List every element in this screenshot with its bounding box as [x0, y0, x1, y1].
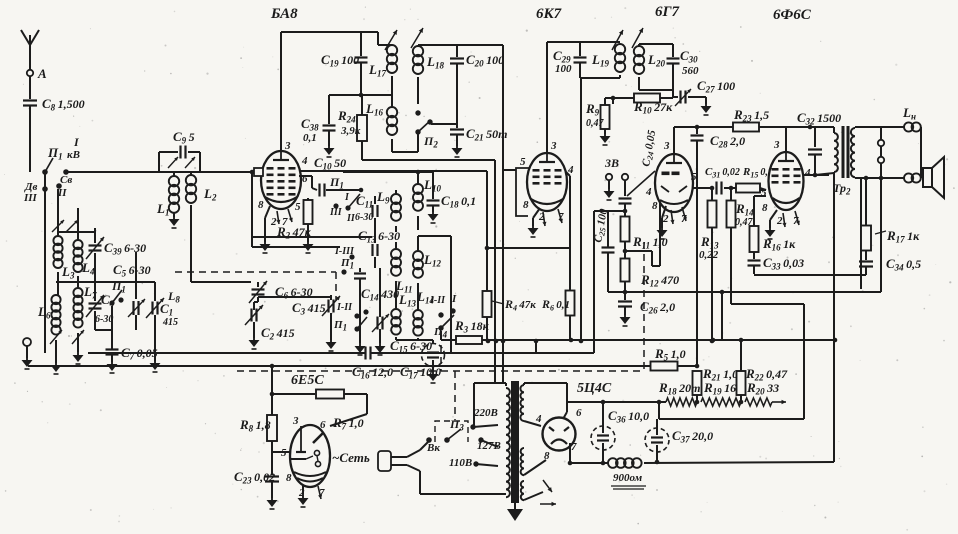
svg-text:Св: Св — [60, 174, 72, 186]
svg-text:С37 20,0: С37 20,0 — [672, 428, 713, 445]
switch P4 — [429, 293, 457, 340]
svg-text:3: 3 — [292, 415, 299, 427]
svg-text:С28 2,0: С28 2,0 — [710, 133, 745, 150]
switch P1 section — [109, 279, 125, 306]
svg-text:2: 2 — [270, 216, 277, 228]
coil L12 — [413, 236, 451, 353]
svg-text:С39 6-30: С39 6-30 — [104, 240, 146, 257]
capacitor C23 0,02 — [234, 469, 279, 509]
capacitor C28 2,0 — [691, 127, 746, 366]
coil L18 — [413, 45, 445, 104]
label tube type 6A8 — [270, 6, 298, 22]
label tube type 6F6S — [773, 7, 812, 23]
svg-text:3: 3 — [284, 140, 291, 152]
trimmer capacitor C13 6-30 — [358, 226, 400, 268]
svg-text:R5 1,0: R5 1,0 — [654, 346, 686, 363]
variable capacitor C2 415 — [245, 302, 295, 349]
tube V2 6K7 — [520, 140, 574, 223]
resistor R19 zigzag — [695, 395, 741, 406]
coil L3 — [53, 189, 75, 281]
svg-text:БА8: БА8 — [270, 6, 298, 22]
wire bus — [252, 172, 372, 247]
svg-text:8: 8 — [258, 199, 264, 211]
svg-text:3,9к: 3,9к — [340, 125, 361, 137]
filter choke 900 ohm — [608, 458, 834, 489]
ground — [73, 350, 84, 364]
svg-text:R12 470: R12 470 — [640, 272, 679, 289]
wire cathode stubs — [260, 206, 293, 253]
coil L17 — [368, 45, 397, 107]
capacitor C25 100 — [592, 207, 614, 292]
svg-text:3В: 3В — [604, 156, 619, 170]
capacitor C33 0,03 — [748, 252, 805, 274]
label tube type 6K7 — [536, 6, 562, 22]
svg-text:R7 1,0: R7 1,0 — [332, 415, 364, 432]
tube V1 6A8 — [258, 140, 308, 228]
wire — [611, 96, 616, 104]
svg-text:R23 1,5: R23 1,5 — [733, 107, 769, 124]
tuning arrow — [612, 28, 643, 50]
mains plug — [332, 450, 407, 471]
wire — [396, 339, 433, 341]
resistor R17 1k — [861, 226, 920, 251]
switch P1 osc section low — [333, 302, 369, 333]
wire B+ bus — [567, 401, 658, 403]
wire bus — [0, 0, 1, 1]
capacitor C10 50 — [299, 155, 363, 197]
tube V5 6E5S — [281, 415, 330, 499]
wire bus — [754, 274, 866, 276]
svg-text:8: 8 — [286, 472, 292, 484]
wire osc anode — [300, 170, 487, 172]
wire cathode 6G7 — [657, 206, 687, 239]
electrolytic C37 20,0 — [645, 419, 713, 464]
svg-text:~Сеть: ~Сеть — [332, 450, 370, 465]
wire bus avc — [28, 365, 651, 367]
switch P3 dashed box — [435, 421, 468, 442]
wire — [343, 170, 433, 175]
svg-text:R18 20т: R18 20т — [658, 380, 700, 397]
wire — [594, 211, 625, 353]
svg-text:0,22: 0,22 — [699, 249, 719, 261]
wire — [658, 401, 666, 403]
coil L9 — [376, 189, 401, 232]
capacitor C30 560 — [667, 44, 700, 90]
switch P1 osc section top — [329, 175, 360, 224]
svg-text:8: 8 — [523, 199, 529, 211]
coil Ln speaker field — [881, 105, 921, 183]
wire — [546, 42, 548, 153]
svg-text:R4 47к: R4 47к — [504, 297, 536, 313]
resistor R13 0,22 — [699, 186, 719, 344]
svg-text:8: 8 — [544, 450, 550, 462]
capacitor C32 1500 — [797, 110, 841, 177]
svg-text:С3 415: С3 415 — [292, 300, 326, 317]
wire plate to top — [280, 32, 282, 151]
wire B+ filter bus — [568, 461, 608, 466]
wire — [329, 93, 392, 98]
coil L6 — [37, 295, 61, 363]
svg-text:С20 100: С20 100 — [466, 52, 504, 69]
svg-text:560: 560 — [682, 65, 699, 77]
electrolytic C17 10,0 — [400, 340, 445, 383]
svg-text:5: 5 — [520, 156, 526, 168]
trimmer capacitor C39 6-30 — [86, 228, 146, 266]
wire — [58, 232, 112, 330]
svg-text:6Г7: 6Г7 — [655, 4, 680, 20]
svg-text:С23 0,02: С23 0,02 — [234, 469, 275, 486]
svg-text:6: 6 — [576, 407, 582, 419]
capacitor C8 1,500 — [23, 96, 85, 113]
svg-text:110В: 110В — [449, 457, 472, 469]
svg-text:7: 7 — [571, 441, 577, 453]
tuning arrow — [52, 220, 78, 232]
coil L2 — [186, 172, 217, 282]
wire — [880, 178, 882, 292]
coil L14 — [413, 289, 434, 340]
ganged switch link dashed — [175, 272, 336, 300]
svg-text:I-II: I-II — [429, 295, 446, 306]
ground — [51, 360, 62, 374]
svg-text:С8 1,500: С8 1,500 — [42, 96, 85, 113]
wire — [29, 76, 31, 99]
capacitor C14 430 — [354, 268, 399, 303]
svg-text:С19 100: С19 100 — [321, 52, 359, 69]
wire grid 6F6S — [760, 189, 766, 191]
svg-text:А: А — [37, 66, 47, 81]
transformer Tr2 secondary — [851, 127, 855, 178]
switch P1 band selector — [23, 135, 80, 204]
wire — [191, 281, 251, 283]
wire — [270, 392, 315, 452]
wire grid feed 6G7 — [625, 200, 660, 266]
svg-text:6Ф6С: 6Ф6С — [773, 7, 812, 23]
svg-text:2: 2 — [776, 215, 783, 227]
label tube type 5Ts4S — [577, 381, 612, 396]
wire — [29, 106, 31, 172]
wire speaker bottom — [855, 163, 904, 289]
svg-text:С33 0,03: С33 0,03 — [763, 255, 804, 272]
label tube type 6E5S — [291, 373, 324, 388]
trimmer capacitor C11 6-30 — [355, 193, 378, 226]
resistor R20 zigzag — [739, 395, 786, 406]
tube V4 6F6S — [761, 139, 811, 227]
antenna W1 — [21, 30, 39, 78]
svg-text:R10 27к: R10 27к — [633, 99, 673, 116]
wire cathode 6E5S — [298, 485, 323, 507]
ganged switch link dashed — [237, 242, 644, 420]
wire top IF bus — [418, 44, 503, 46]
tube V3 6G7 — [645, 127, 697, 225]
svg-text:6-30: 6-30 — [95, 314, 113, 325]
switch P3 Vk — [420, 417, 464, 454]
trimmer capacitor C6 6-30 — [249, 281, 313, 303]
svg-text:С21 50т: С21 50т — [466, 126, 507, 143]
capacitor C26 2,0 — [618, 292, 675, 326]
coil L20 — [634, 44, 673, 90]
svg-text:R6 0,1: R6 0,1 — [541, 297, 570, 313]
resistor R4 47k — [483, 248, 537, 340]
svg-text:С5 6-30: С5 6-30 — [113, 262, 151, 279]
svg-text:415: 415 — [162, 317, 178, 328]
wire — [58, 272, 78, 295]
coil L7 — [73, 284, 97, 352]
coil L10 — [413, 172, 441, 230]
wire speaker top — [855, 127, 881, 140]
capacitor C16 12,0 — [352, 347, 393, 381]
svg-text:С36 10,0: С36 10,0 — [608, 408, 649, 425]
trimmer capacitor C5 6-30 — [113, 252, 151, 330]
svg-text:I-II: I-II — [336, 302, 353, 313]
svg-text:6-30: 6-30 — [355, 212, 373, 223]
capacitor C18 0,1 — [427, 172, 477, 223]
capacitor C34 0,5 — [859, 251, 921, 275]
wire cathode 5Ts4S — [569, 443, 571, 463]
wire — [56, 281, 155, 283]
svg-text:220В: 220В — [473, 407, 498, 419]
svg-text:С27 100: С27 100 — [697, 78, 735, 95]
jack terminals — [878, 140, 884, 163]
svg-text:0,1: 0,1 — [303, 132, 317, 144]
transformer Tr2 primary — [834, 127, 838, 176]
trimmer capacitor C4 6-30 — [86, 266, 115, 330]
variable capacitor C3 415 — [292, 295, 340, 351]
wire — [785, 127, 787, 153]
wire — [485, 171, 490, 250]
resistor R12 470 — [621, 242, 680, 294]
svg-text:С2 415: С2 415 — [261, 325, 295, 342]
svg-text:8: 8 — [762, 202, 768, 214]
capacitor C29 100 — [547, 42, 587, 78]
tuning arrow — [50, 330, 84, 344]
wire grid bus — [66, 170, 254, 175]
svg-text:4: 4 — [645, 186, 652, 198]
coil L19 — [580, 42, 625, 78]
svg-text:8: 8 — [652, 200, 658, 212]
svg-text:3: 3 — [773, 139, 780, 151]
svg-text:4: 4 — [301, 155, 308, 167]
resistor R3 18k — [441, 318, 490, 344]
svg-text:6: 6 — [320, 419, 326, 431]
wire cathode 6F6S — [754, 196, 800, 239]
capacitor C9 5 — [159, 129, 200, 172]
wire — [657, 292, 804, 419]
wire — [44, 174, 46, 353]
svg-text:С26 2,0: С26 2,0 — [640, 299, 675, 316]
wire — [739, 338, 744, 371]
resistor R10 27k — [613, 94, 673, 116]
svg-text:С31 0,02: С31 0,02 — [705, 166, 740, 180]
wire — [355, 286, 366, 355]
wire IF return — [579, 78, 584, 343]
coil L11 — [391, 242, 412, 295]
svg-text:R3 18к: R3 18к — [454, 318, 490, 335]
terminal 3V — [604, 156, 629, 200]
resistor R7 1,0 — [316, 390, 367, 432]
resistor R24 3,9k — [337, 95, 367, 160]
svg-text:6: 6 — [302, 173, 308, 185]
phono jack — [22, 338, 33, 369]
trimmer capacitor C27 100 — [673, 78, 735, 115]
svg-text:6Е5С: 6Е5С — [291, 373, 324, 388]
resistor R15 0,1 — [736, 166, 773, 193]
wire plate bus — [281, 32, 378, 45]
capacitor C19 100 — [321, 32, 368, 95]
resistor R5 1,0 — [651, 346, 700, 371]
svg-text:3: 3 — [663, 140, 670, 152]
svg-text:III: III — [23, 192, 38, 204]
transformer Tr2 core — [833, 126, 851, 197]
wire screen bus — [608, 290, 881, 295]
transformer Tr1 primary taps — [449, 407, 501, 469]
tube V6 5Ts4S rectifier — [535, 407, 582, 462]
resistor R11 1,0 — [621, 211, 668, 253]
capacitor C20 100 — [450, 45, 504, 128]
svg-text:6К7: 6К7 — [536, 6, 562, 22]
svg-text:I: I — [451, 293, 457, 305]
transformer Tr1 primary — [506, 388, 510, 497]
tuning arrow — [168, 157, 195, 168]
resistor R6 0,1 — [541, 291, 575, 341]
svg-text:0,47: 0,47 — [586, 118, 605, 129]
svg-text:5: 5 — [761, 187, 767, 199]
heater arrows — [540, 480, 556, 506]
svg-text:4: 4 — [804, 167, 811, 179]
resistor R8 1,8 — [239, 364, 277, 475]
electrolytic C36 10,0 — [591, 400, 649, 466]
svg-text:Вк: Вк — [426, 442, 440, 454]
svg-text:5: 5 — [295, 201, 301, 213]
wire — [254, 297, 331, 302]
wire osc supply — [362, 160, 495, 383]
svg-text:5Ц4С: 5Ц4С — [577, 381, 612, 396]
wire 6K7 screen — [566, 172, 570, 291]
switch P2 — [415, 110, 438, 149]
resistor R18 20t — [658, 380, 700, 406]
resistor R23 1,5 — [674, 107, 815, 132]
svg-text:С18 0,1: С18 0,1 — [441, 193, 476, 210]
coil L1 — [156, 172, 180, 228]
capacitor C7 0,05 — [106, 306, 158, 373]
grid cap 6K7 — [516, 168, 529, 216]
svg-text:С32 1500: С32 1500 — [797, 110, 841, 127]
coil L4 — [73, 208, 95, 277]
trimmer capacitor C15 6-30 — [372, 268, 432, 355]
tuning arrow — [385, 28, 423, 50]
transformer Tr1 5V winding — [521, 448, 546, 475]
wire bus left — [88, 339, 594, 353]
wire — [639, 90, 673, 97]
wire — [815, 127, 834, 175]
svg-text:3: 3 — [550, 140, 557, 152]
transformer Tr1 HV secondary — [520, 383, 567, 426]
variable capacitor C1 415 — [146, 282, 180, 372]
svg-text:4: 4 — [535, 413, 542, 425]
wire detector diagonal — [627, 171, 655, 196]
resistor R14 0,47 — [727, 186, 755, 304]
wire plate 6F6S — [803, 174, 829, 176]
resistor R16 1k — [750, 213, 797, 253]
capacitor C31 0,02 — [693, 166, 740, 195]
svg-text:С34 0,5: С34 0,5 — [886, 256, 921, 273]
resistor R9 0,47 — [585, 98, 613, 145]
wire cathode bus 6K7 — [487, 247, 570, 249]
resistor R21 1,0 R19 16 — [693, 366, 739, 397]
wire — [0, 0, 1, 1]
coil L16 — [365, 101, 397, 152]
capacitor C24 0,05 — [619, 129, 660, 214]
resistor R22 0,47 R20 33 — [737, 366, 789, 397]
svg-text:900ом: 900ом — [613, 472, 643, 484]
svg-text:С6 6-30: С6 6-30 — [275, 284, 313, 301]
loudspeaker — [923, 157, 944, 198]
wire — [407, 450, 506, 494]
wire — [503, 45, 516, 383]
svg-text:R2 47к: R2 47к — [276, 224, 312, 241]
wire B+ riser — [833, 176, 835, 462]
svg-text:III: III — [329, 207, 343, 218]
capacitor C21 50t — [450, 126, 507, 157]
label tube type 6G7 — [655, 4, 680, 20]
transformer Tr1 6,3V winding — [521, 481, 543, 500]
wire cathode — [528, 208, 563, 237]
node A — [27, 66, 47, 81]
svg-text:кВ: кВ — [67, 149, 80, 161]
svg-text:100: 100 — [555, 63, 572, 75]
switch P1 osc section mid — [334, 246, 355, 275]
capacitor C38 0,1 — [301, 95, 336, 157]
wire — [474, 383, 506, 425]
transformer Tr1 core — [507, 381, 523, 521]
coil L13 — [391, 292, 416, 340]
wire bus — [482, 338, 837, 343]
wire grid — [252, 168, 263, 176]
wire — [392, 124, 457, 152]
wire B+ lead — [0, 0, 1, 1]
svg-text:R8 1,8: R8 1,8 — [239, 417, 271, 434]
resistor R2 47k — [276, 198, 314, 253]
